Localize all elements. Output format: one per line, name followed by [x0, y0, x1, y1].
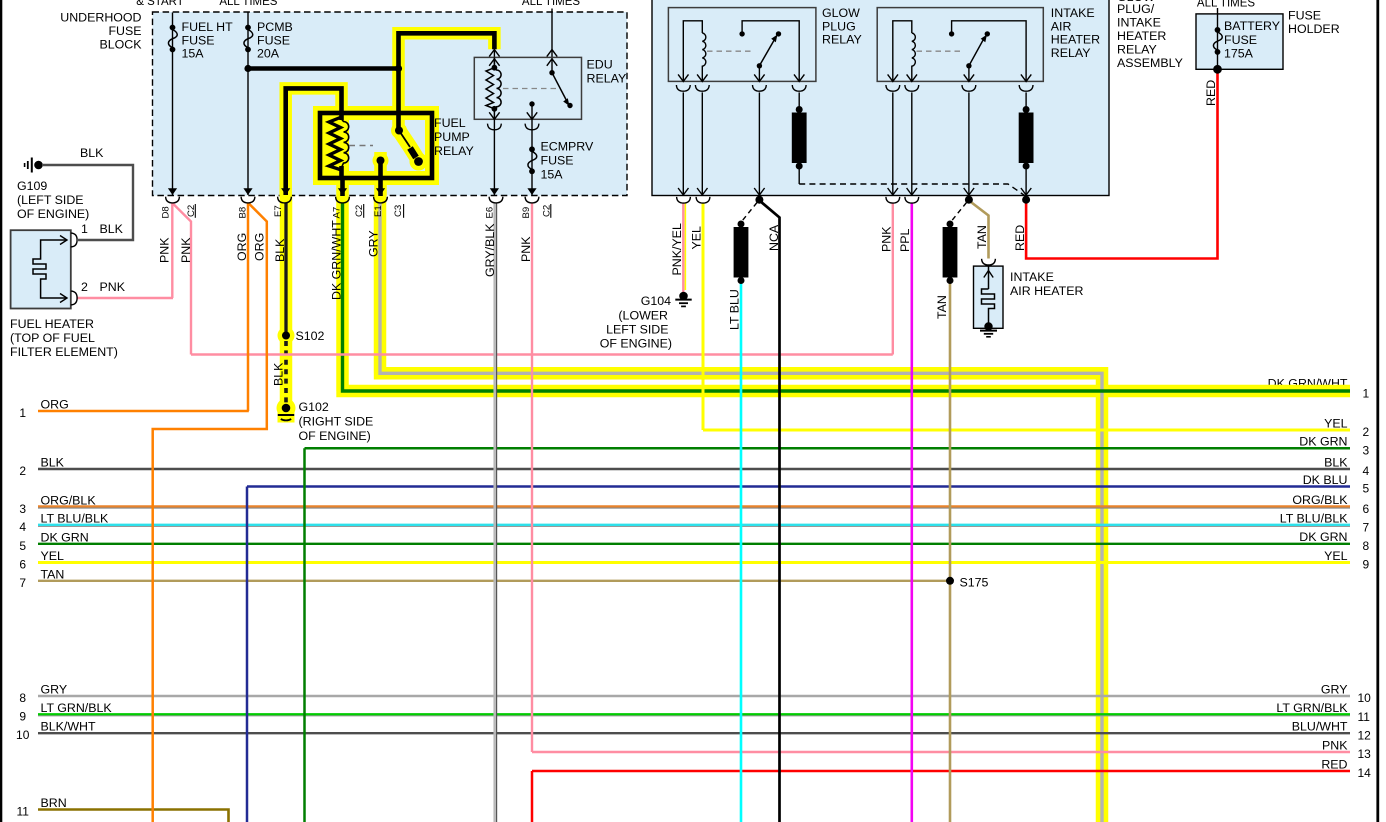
svg-text:7: 7 — [1363, 520, 1370, 534]
wire 3R DK GRN — [305, 447, 1351, 450]
svg-text:E7: E7 — [273, 205, 284, 217]
svg-text:PNK: PNK — [880, 226, 894, 252]
svg-text:13: 13 — [1358, 747, 1372, 761]
wire from ALL TIMES through PCMB fuse to B8 — [247, 13, 249, 196]
svg-text:BLK: BLK — [41, 456, 65, 470]
EDU pin cups below box — [488, 124, 502, 130]
dashed diagonal to LT BLU inline connector — [742, 203, 757, 222]
svg-text:& START: & START — [136, 0, 184, 8]
ground G109 — [25, 158, 43, 173]
svg-text:PNK: PNK — [519, 236, 533, 262]
thin wire into EDU coil pin — [493, 49, 495, 67]
svg-text:PLUG/: PLUG/ — [1117, 2, 1155, 16]
svg-text:1: 1 — [1363, 387, 1370, 401]
svg-text:2: 2 — [1363, 425, 1370, 439]
wire 9L/11R LT GRN/BLK — [38, 713, 1350, 715]
wire 5L/8R DK GRN — [38, 543, 1350, 545]
svg-text:OF ENGINE): OF ENGINE) — [299, 429, 371, 443]
svg-text:FUEL HEATER: FUEL HEATER — [10, 317, 94, 331]
wire ORG B8 to wire 1L — [247, 203, 250, 411]
dashed link from glow pin4 to red junction — [799, 184, 1026, 197]
inline connector on LT BLU — [734, 221, 749, 285]
fuel heater pin cups — [71, 233, 77, 247]
wire YEL from glow relay to wire 2R — [702, 203, 705, 431]
svg-text:TAN: TAN — [975, 225, 989, 249]
wire RED relay assembly to battery fuse — [1026, 69, 1217, 258]
wire 6L/9R YEL — [38, 561, 1350, 564]
wire PNK from intake relay down to long horizontal — [892, 203, 894, 355]
svg-text:HOLDER: HOLDER — [1288, 22, 1340, 36]
EDU relay coil — [486, 57, 501, 119]
svg-text:TAN: TAN — [935, 295, 949, 319]
dashed diagonal to TAN inline connector — [952, 203, 967, 222]
svg-text:TAN: TAN — [41, 567, 65, 581]
wire BLK G109 to fuel heater pin 1 — [42, 165, 133, 240]
svg-text:DK GRN/WHT: DK GRN/WHT — [330, 220, 344, 300]
wire 14R RED — [532, 770, 1350, 773]
wire NCA black — [759, 201, 779, 822]
arrow up inside intake air heater — [984, 271, 993, 278]
svg-text:(RIGHT SIDE: (RIGHT SIDE — [299, 415, 374, 429]
svg-text:BLK: BLK — [1324, 455, 1348, 469]
wire 2L/4R BLK — [38, 468, 1350, 470]
inline connector on TAN — [943, 221, 958, 285]
svg-text:BLK: BLK — [80, 146, 104, 160]
svg-text:BLU/WHT: BLU/WHT — [1292, 720, 1348, 734]
wire GRY/BLK from E6 down off page — [493, 203, 496, 822]
svg-text:11: 11 — [16, 805, 29, 819]
svg-text:FILTER ELEMENT): FILTER ELEMENT) — [10, 345, 118, 359]
svg-text:ALL TIMES: ALL TIMES — [219, 0, 277, 8]
hl core: BLK dashed wire S102 to G102 — [284, 341, 288, 404]
wire RED from wire 14R down off page — [531, 771, 534, 822]
junction battery fuse output — [1213, 65, 1222, 74]
cups at fuse block bottom: D8 B8 E7 A7 E1 E6 B9 — [166, 197, 180, 203]
wire PNK/YEL to G104 — [682, 203, 684, 293]
svg-text:RED: RED — [1321, 757, 1347, 771]
svg-text:GRY/BLK: GRY/BLK — [483, 223, 497, 277]
svg-text:RELAY: RELAY — [587, 72, 627, 86]
svg-text:E1: E1 — [373, 205, 384, 217]
svg-text:BLK: BLK — [100, 222, 124, 236]
fuel pump relay box (highlighted) — [320, 113, 432, 178]
svg-text:INTAKE: INTAKE — [1117, 16, 1161, 30]
wire 2R YEL — [703, 429, 1350, 432]
svg-text:7: 7 — [19, 576, 26, 590]
underhood fuse block box (light blue, dashed) — [153, 12, 628, 196]
svg-text:LT GRN/BLK: LT GRN/BLK — [41, 701, 113, 715]
intake relay dashed link — [917, 50, 962, 52]
svg-text:15A: 15A — [182, 47, 205, 61]
wire 1L ORG — [38, 410, 249, 413]
svg-text:GRY: GRY — [367, 230, 381, 257]
EDU middle pin wire to ECMPRV fuse and B9 — [531, 104, 533, 195]
arrow down at D8 — [168, 188, 177, 195]
intake relay pin arrows and cups — [888, 74, 898, 81]
fuel heater internal element — [33, 240, 66, 298]
svg-text:S175: S175 — [960, 576, 989, 590]
hl halo: G102 ground — [277, 399, 296, 418]
arrows down at E7 A7 E1 (highlighted pins) — [281, 188, 290, 195]
fuel pump relay switch — [395, 127, 403, 135]
svg-text:S102: S102 — [296, 329, 325, 343]
ground G104 — [675, 292, 691, 307]
thick black feed wire from PCMB fuse — [248, 66, 399, 71]
svg-text:FUSE: FUSE — [541, 154, 574, 168]
svg-text:ASSEMBLY: ASSEMBLY — [1117, 56, 1183, 70]
wire 13R PNK — [532, 751, 1350, 753]
svg-text:8: 8 — [19, 691, 26, 705]
wire 10L/12R BLK/WHT-BLU/WHT — [38, 732, 1350, 734]
svg-text:RELAY: RELAY — [822, 33, 862, 47]
cup at intake air heater input — [982, 259, 996, 265]
svg-text:3: 3 — [1363, 444, 1370, 458]
svg-text:BLOCK: BLOCK — [99, 38, 142, 52]
svg-text:AIR HEATER: AIR HEATER — [1010, 284, 1083, 298]
hl core: thick black PCMB-to-EDU bracket — [399, 33, 495, 132]
intake air heater element — [982, 266, 995, 326]
intake relay coil — [893, 21, 912, 82]
wire PNK long horizontal — [191, 353, 893, 355]
intake air heater ground dot and bars — [984, 322, 992, 330]
svg-text:NCA: NCA — [767, 224, 781, 251]
fuse PCMB 20A — [244, 25, 253, 53]
wire ALL TIMES down to EDU relay switch — [551, 9, 553, 73]
wire ALL TIMES into battery fuse — [1217, 8, 1219, 69]
svg-text:9: 9 — [19, 710, 26, 724]
svg-text:ORG/BLK: ORG/BLK — [1292, 493, 1348, 507]
svg-text:(TOP OF FUEL: (TOP OF FUEL — [10, 331, 95, 345]
svg-text:LEFT SIDE: LEFT SIDE — [606, 323, 668, 337]
wire 3L/6R ORG/BLK — [38, 505, 1350, 507]
svg-text:ECMPRV: ECMPRV — [541, 140, 595, 154]
fuel pump relay middle pin — [377, 157, 385, 165]
junction dots below assembly — [755, 196, 763, 204]
hl core: BLK wire E7 to S102 — [284, 203, 287, 333]
svg-text:6: 6 — [19, 558, 26, 572]
wire TAN below inline connector off page — [949, 283, 952, 822]
hl band: middle pin E1 stub — [374, 152, 387, 196]
arrow down at E6 — [490, 188, 499, 195]
svg-text:5: 5 — [19, 539, 26, 553]
wire 5R DK BLU — [247, 485, 1350, 488]
wire LT BLU from inline connector off page — [740, 283, 743, 822]
svg-text:BATTERY: BATTERY — [1224, 19, 1280, 33]
fuel pump relay dashed link — [349, 145, 373, 147]
glow relay coil — [683, 21, 702, 82]
EDU pin arrows at box bottom — [489, 112, 499, 119]
svg-text:FUSE: FUSE — [182, 33, 215, 47]
svg-text:G109: G109 — [17, 179, 47, 193]
arrow down at B8 — [243, 188, 252, 195]
svg-text:FUSE: FUSE — [257, 33, 290, 47]
svg-text:D8: D8 — [161, 206, 172, 218]
hl core: pump relay coil ground bracket to E7 — [286, 88, 342, 195]
svg-text:DK GRN: DK GRN — [41, 530, 89, 544]
EDU relay box — [474, 57, 581, 119]
arrow down at B9 — [527, 188, 536, 195]
EDU relay switch — [549, 70, 554, 75]
wire PNK from D8 to glow relay pin — [77, 297, 173, 299]
svg-text:10: 10 — [16, 728, 30, 742]
svg-text:DK GRN: DK GRN — [1299, 530, 1347, 544]
fuse ECMPRV 15A — [528, 146, 537, 174]
svg-text:E6: E6 — [485, 207, 496, 219]
svg-text:(LOWER: (LOWER — [618, 309, 668, 323]
wire PNK from B9 down to wire 13R — [531, 203, 533, 752]
svg-text:PCMB: PCMB — [257, 20, 293, 34]
hl band: E1 GRY wire down, right, down off page — [374, 196, 1102, 822]
battery fuse holder box — [1196, 14, 1283, 69]
hl band: fuel pump relay box outline glow — [320, 113, 432, 178]
svg-text:YEL: YEL — [1324, 549, 1348, 563]
splice S102 — [282, 332, 290, 340]
splice S175 — [946, 577, 954, 585]
wire DK GRN down from wire 3R — [303, 448, 306, 822]
svg-text:20A: 20A — [257, 47, 280, 61]
svg-text:FUEL: FUEL — [434, 116, 466, 130]
svg-text:LT BLU: LT BLU — [728, 289, 742, 330]
svg-text:BLK: BLK — [273, 238, 287, 262]
svg-text:FUEL HT: FUEL HT — [182, 20, 234, 34]
svg-text:OF ENGINE): OF ENGINE) — [17, 207, 89, 221]
svg-text:RELAY: RELAY — [1051, 46, 1091, 60]
fuel heater pin 1 arrow — [60, 236, 67, 245]
svg-text:RED: RED — [1013, 225, 1027, 251]
cups below assembly: PNK/YEL YEL PNK PPL — [677, 197, 691, 203]
svg-text:FUSE: FUSE — [1224, 33, 1257, 47]
svg-text:175A: 175A — [1224, 47, 1254, 61]
hl band: A7 DK GRN/WHT wire down and right to edge (wire 1) — [336, 178, 1350, 391]
svg-text:HEATER: HEATER — [1051, 33, 1100, 47]
svg-text:UNDERHOOD: UNDERHOOD — [60, 10, 141, 24]
svg-text:LT GRN/BLK: LT GRN/BLK — [1276, 701, 1348, 715]
wire 7L TAN to S175 — [38, 580, 950, 582]
arrow up into EDU relay box (coil pin) — [489, 50, 499, 57]
svg-text:YEL: YEL — [1324, 416, 1348, 430]
svg-text:1: 1 — [81, 222, 88, 236]
hl core: E1 GRY wire down, right, down off page — [380, 203, 1102, 822]
svg-text:PLUG: PLUG — [822, 19, 856, 33]
svg-text:A7: A7 — [332, 207, 343, 219]
svg-text:YEL: YEL — [41, 549, 65, 563]
svg-text:PUMP: PUMP — [434, 130, 470, 144]
svg-text:2: 2 — [81, 280, 88, 294]
svg-text:GLOW: GLOW — [822, 6, 860, 20]
svg-text:INTAKE: INTAKE — [1010, 270, 1054, 284]
svg-text:AIR: AIR — [1051, 19, 1072, 33]
intake relay pin4 wire and inline connector — [1025, 92, 1027, 108]
hl band: fuel pump relay coil bracket to pin E7 — [286, 88, 342, 196]
fuel heater component box — [11, 230, 71, 308]
svg-text:5: 5 — [1363, 482, 1370, 496]
glow relay pin4 wire and inline connector — [798, 92, 800, 108]
hl band: fuel pump relay coil blob — [325, 116, 349, 174]
svg-text:4: 4 — [19, 520, 26, 534]
svg-text:ORG: ORG — [235, 233, 249, 261]
ground G102 — [278, 404, 294, 421]
svg-text:LT BLU/BLK: LT BLU/BLK — [41, 512, 109, 526]
svg-text:PNK: PNK — [158, 237, 172, 263]
svg-text:1: 1 — [19, 406, 26, 420]
glow relay pin arrows and cups — [678, 74, 688, 81]
svg-text:B8: B8 — [238, 207, 249, 219]
svg-text:PPL: PPL — [898, 228, 912, 252]
hl halo: pump relay pivot + contact — [391, 123, 407, 139]
glow relay pin wires down to assembly edge — [682, 92, 684, 195]
svg-text:10: 10 — [1358, 691, 1372, 705]
arrows at assembly bottom edge — [678, 188, 688, 195]
svg-text:HEATER: HEATER — [1117, 29, 1166, 43]
fuel heater pin 2 arrow — [60, 294, 67, 303]
svg-text:DK BLU: DK BLU — [1303, 473, 1348, 487]
wire TAN to intake air heater — [969, 201, 989, 259]
wire PNK D8 to fuel heater pin 2 — [171, 203, 173, 298]
svg-text:FUSE: FUSE — [1288, 9, 1321, 23]
svg-text:3: 3 — [19, 502, 26, 516]
svg-text:PNK: PNK — [1322, 738, 1348, 752]
wire ORG B8 diagonal down left and off page — [153, 204, 267, 822]
svg-text:6: 6 — [1363, 502, 1370, 516]
svg-text:BRN: BRN — [41, 796, 67, 810]
intake relay switch — [952, 21, 1027, 82]
svg-text:FUSE: FUSE — [108, 24, 141, 38]
wire 4L/7R LT BLU/BLK — [38, 524, 1350, 526]
EDU relay dashed link — [503, 88, 557, 90]
A7 stub through box bottom — [340, 176, 345, 196]
svg-text:8: 8 — [1363, 539, 1370, 553]
wire 8L/10R GRY — [38, 695, 1350, 697]
wire EDU coil to E6 — [493, 119, 495, 195]
hl core: A7 DK GRN/WHT wire down and right (wire 1) — [343, 203, 1351, 391]
svg-text:12: 12 — [1358, 728, 1372, 742]
svg-text:RELAY: RELAY — [1117, 43, 1157, 57]
hl band: BLK wire E7 to G102 ground — [280, 196, 293, 412]
svg-text:ALL TIMES: ALL TIMES — [522, 0, 580, 8]
svg-text:ORG: ORG — [41, 398, 69, 412]
svg-text:ORG/BLK: ORG/BLK — [41, 493, 97, 507]
svg-text:ALL TIMES: ALL TIMES — [1197, 0, 1255, 10]
glow relay dashed link — [707, 50, 752, 52]
svg-text:PNK: PNK — [100, 280, 126, 294]
intake air heater component box — [974, 266, 1004, 328]
svg-text:LT BLU/BLK: LT BLU/BLK — [1280, 512, 1348, 526]
svg-text:C3: C3 — [393, 205, 404, 217]
arrow up into EDU relay box — [547, 50, 557, 57]
svg-text:ORG: ORG — [253, 233, 267, 261]
svg-text:YEL: YEL — [690, 226, 704, 250]
left page border — [0, 0, 2, 822]
svg-text:EDU: EDU — [587, 58, 613, 72]
svg-text:BLK/WHT: BLK/WHT — [41, 720, 97, 734]
svg-text:OF ENGINE): OF ENGINE) — [600, 337, 672, 351]
hl band: switch arm blob — [399, 131, 419, 161]
svg-text:PNK: PNK — [179, 237, 193, 263]
svg-text:GRY: GRY — [41, 683, 68, 697]
junction PCMB feed — [244, 65, 251, 72]
svg-text:G102: G102 — [299, 400, 329, 414]
wire 11L BRN — [38, 810, 229, 822]
svg-text:INTAKE: INTAKE — [1051, 6, 1095, 20]
svg-text:RELAY: RELAY — [434, 144, 474, 158]
svg-text:DK GRN: DK GRN — [1299, 435, 1347, 449]
svg-text:B9: B9 — [521, 207, 532, 219]
svg-text:9: 9 — [1363, 558, 1370, 572]
svg-text:RED: RED — [1204, 80, 1218, 106]
junction at bracket — [395, 65, 402, 72]
wire PPL off page — [910, 203, 913, 822]
right page border — [1376, 0, 1379, 822]
svg-text:G104: G104 — [641, 294, 671, 308]
glow relay switch — [742, 21, 799, 82]
svg-text:15A: 15A — [541, 168, 564, 182]
wire from & START to FUEL HT fuse and down to D8 — [172, 13, 174, 196]
svg-text:2: 2 — [19, 464, 26, 478]
fuse BATTERY 175A — [1213, 27, 1222, 55]
svg-text:(LEFT SIDE: (LEFT SIDE — [17, 193, 84, 207]
wire PNK D8 diagonal to long horizontal — [173, 204, 191, 355]
glow plug / intake heater relay assembly box — [652, 0, 1109, 196]
svg-text:11: 11 — [1358, 710, 1371, 724]
svg-text:PNK/YEL: PNK/YEL — [670, 223, 684, 275]
svg-text:4: 4 — [1363, 464, 1370, 478]
fuel pump relay coil (thick zigzag) — [329, 117, 342, 170]
hl band: PCMB feed up-over to EDU coil — [399, 33, 495, 130]
hl halo: S102 splice — [278, 327, 295, 344]
intake relay pin wires down — [892, 92, 894, 195]
svg-text:BLK: BLK — [272, 362, 286, 386]
wire DK BLU down from wire 5R — [246, 487, 249, 822]
fuse FUEL HT 15A — [168, 25, 177, 53]
svg-text:GRY: GRY — [1321, 682, 1348, 696]
svg-text:14: 14 — [1358, 766, 1372, 780]
